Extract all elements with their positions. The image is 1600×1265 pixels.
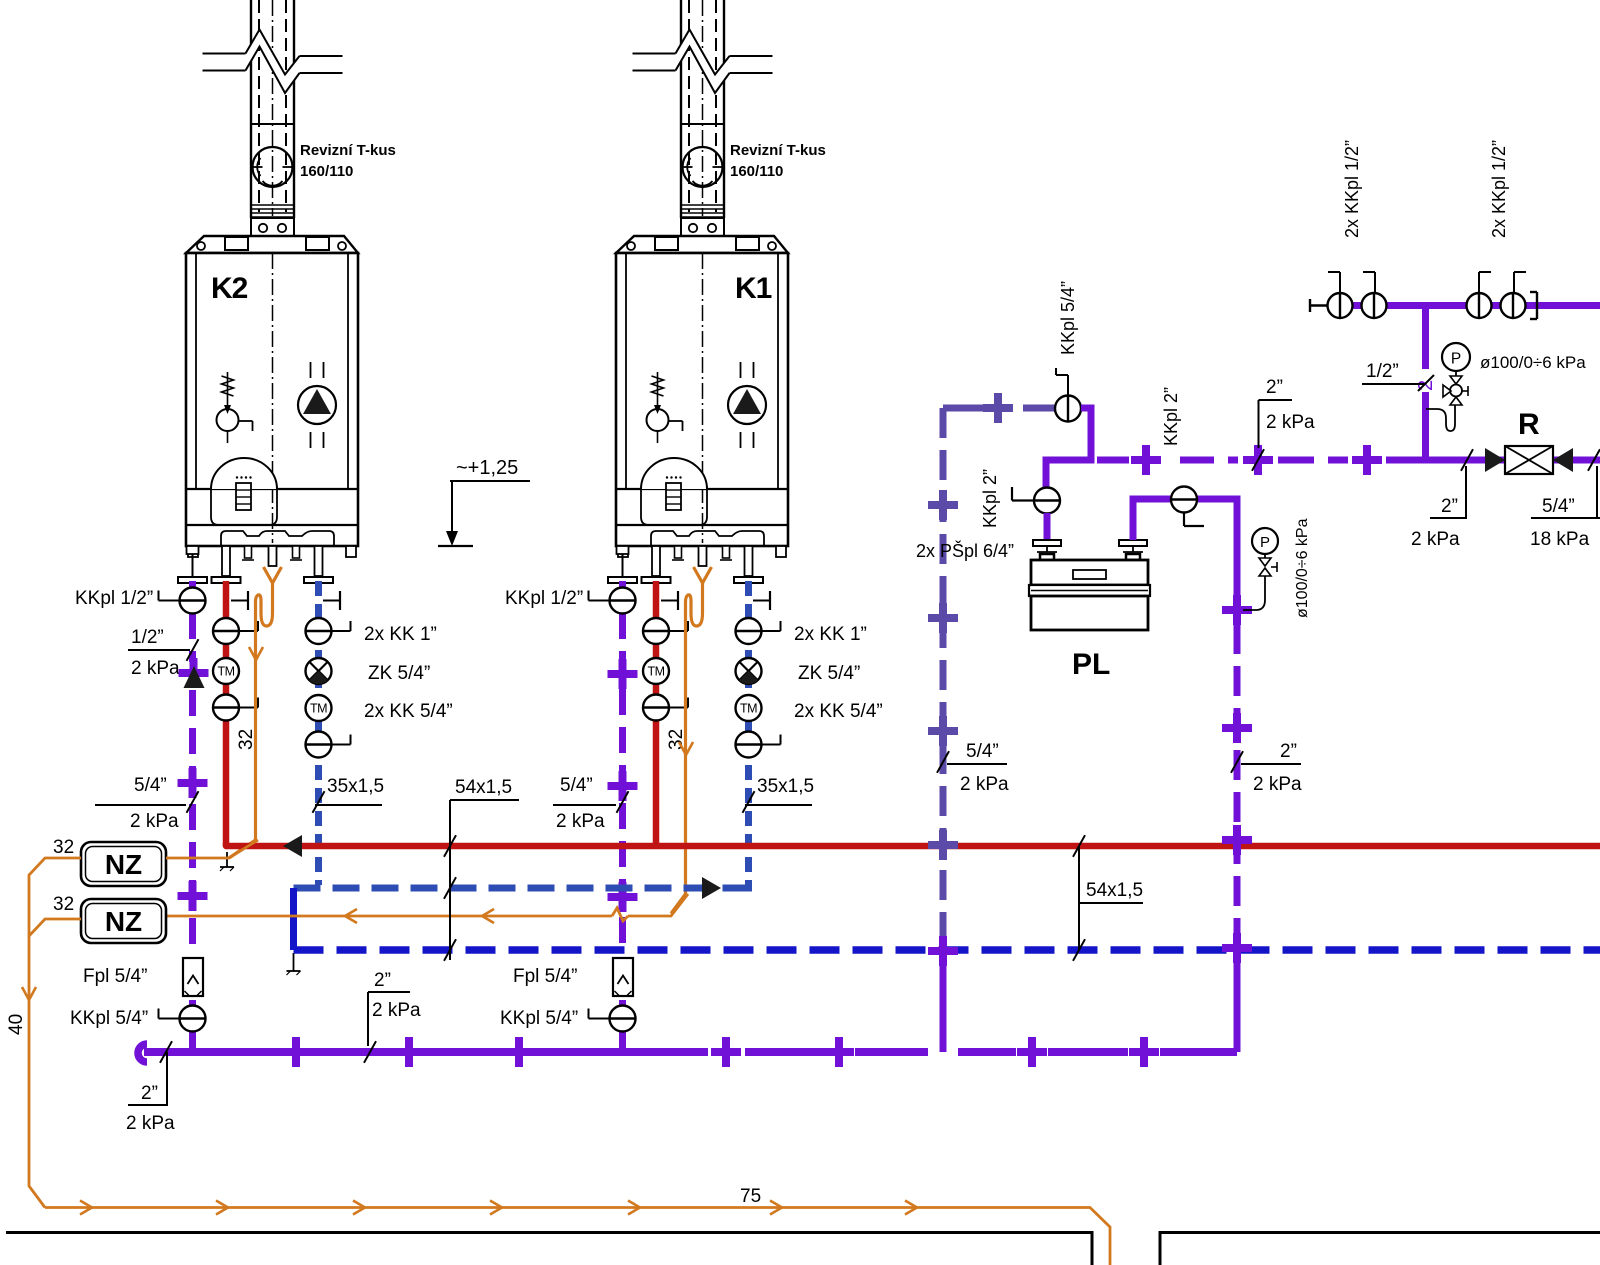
pipe: K1 flow line (red vertical) — [653, 581, 660, 846]
level mark ~+1,25 — [438, 457, 530, 546]
svg-text:5/4”: 5/4” — [966, 741, 999, 762]
svg-text:PL: PL — [1072, 648, 1110, 681]
boiler K2 flue revision tee label — [300, 142, 396, 180]
boiler K2 connection stubs and flanges — [178, 546, 333, 583]
label KKpl 1/2" (K1) — [505, 588, 583, 609]
pipe: K2 flow line (red vertical) — [223, 581, 230, 846]
label 2x KK 1" (K1) — [794, 624, 867, 645]
svg-text:ø100/0÷6 kPa: ø100/0÷6 kPa — [1480, 353, 1586, 372]
pressure gauge P (PL riser) — [1243, 528, 1278, 610]
svg-text:160/110: 160/110 — [300, 163, 353, 180]
valve KKpl 1/2" under K2 — [159, 588, 206, 614]
dimension 54x1,5 (left) — [444, 777, 519, 961]
pipe: K2 safety/fill line (violet dashed vertical) — [189, 581, 196, 1052]
thermometer TM (K2 red) — [213, 658, 239, 684]
svg-text:NZ: NZ — [105, 849, 142, 880]
check valve ZK 5/4" (K2) — [306, 658, 332, 684]
pipe: drop from top line (violet x1425) — [1415, 306, 1437, 461]
label 1/2" with slash (x1425) — [1362, 361, 1434, 391]
svg-text:Revizní T-kus: Revizní T-kus — [730, 142, 826, 159]
pipe: condensate line (orange horizontal) — [166, 894, 688, 923]
pipe: PL right nipple to riser (violet) — [1133, 499, 1237, 582]
pipe: K2 drain hose (orange with loop) — [229, 567, 282, 858]
label KKpl 5/4" (K1 bottom) — [500, 1008, 578, 1029]
wall outline (bottom left room) — [6, 1233, 1092, 1265]
svg-text:32: 32 — [236, 729, 257, 750]
vent stub bracket (K1 red) — [661, 591, 678, 610]
end cap (top line left) — [1310, 299, 1327, 312]
thermometer TM (K2 blue) — [306, 695, 332, 721]
svg-text:Revizní T-kus: Revizní T-kus — [300, 142, 396, 159]
label 35x1,5 (K1) — [743, 776, 815, 813]
svg-text:75: 75 — [740, 1186, 761, 1207]
svg-text:KKpl 1/2”: KKpl 1/2” — [75, 588, 153, 609]
label 2x KK 5/4" (K2) — [364, 701, 453, 722]
size slash 2" 2 kPa (before R) — [1411, 449, 1473, 550]
svg-text:5/4”: 5/4” — [560, 775, 593, 796]
drain tap under red elbow — [220, 852, 234, 871]
plus ticks on riser x1237 — [1222, 595, 1252, 963]
svg-text:54x1,5: 54x1,5 — [455, 777, 512, 798]
check direction triangle (K2 purple line) — [184, 666, 205, 688]
svg-text:5/4”: 5/4” — [134, 775, 167, 796]
svg-text:K1: K1 — [735, 272, 772, 305]
svg-text:2x KKpl 1/2”: 2x KKpl 1/2” — [1489, 140, 1509, 238]
plus tick (K2 purple, below NZ row) — [178, 881, 208, 911]
svg-text:2x PŠpl 6/4”: 2x PŠpl 6/4” — [916, 540, 1014, 561]
svg-text:1/2”: 1/2” — [1366, 361, 1399, 382]
plus tick + size slash 5/4" 2 kPa (K2) — [95, 768, 208, 832]
pipe: PL left nipple (violet) — [1044, 513, 1051, 540]
svg-text:~+1,25: ~+1,25 — [456, 457, 518, 479]
label KKpl 2" (PL left, rotated) — [980, 469, 1000, 528]
drain tap under return elbow — [287, 953, 301, 975]
svg-text:ZK 5/4”: ZK 5/4” — [798, 663, 860, 684]
svg-text:160/110: 160/110 — [730, 163, 783, 180]
valve KKpl 5/4" (K2 bottom) — [159, 1006, 206, 1032]
label diameter/pressure (PL gauge, rotated) — [1294, 518, 1311, 618]
junction box NZ (bottom) — [81, 899, 166, 943]
vent stub bracket (K2 red) — [231, 591, 248, 610]
pipe: expansion connection (muted violet dashed vertical) — [943, 408, 1012, 1052]
svg-text:2 kPa: 2 kPa — [1253, 774, 1302, 795]
plus ticks on bottom violet main — [281, 1037, 1159, 1067]
flange bracket on top line — [1530, 292, 1537, 319]
svg-text:32: 32 — [666, 729, 687, 750]
svg-text:2”: 2” — [374, 970, 391, 991]
label KKpl 1/2" (K2) — [75, 588, 153, 609]
valve (K1 red lower) — [643, 695, 688, 721]
label ZK 5/4" (K2) — [368, 663, 430, 684]
valve (K2 red lower) — [213, 695, 258, 721]
label PL — [1072, 648, 1110, 681]
valve pair 2x KKpl 1/2" (right) — [1467, 272, 1527, 318]
plus ticks on feed main y460 — [1131, 445, 1382, 475]
pipe: return main lower (navy blue dashed) — [294, 946, 1600, 954]
label 32 (NZ top) — [53, 837, 74, 858]
size slash 2" 2 kPa (bottom main left) — [126, 1041, 175, 1134]
svg-text:TM: TM — [217, 665, 234, 679]
gas filter R — [1485, 446, 1573, 474]
svg-text:TM: TM — [740, 702, 757, 716]
svg-text:2 kPa: 2 kPa — [131, 658, 180, 679]
thermometer TM (K1 blue) — [736, 695, 762, 721]
svg-text:2 kPa: 2 kPa — [372, 1000, 421, 1021]
vent stub bracket (K2 blue) — [323, 591, 340, 610]
pipe: K1 return line (blue dashed vertical, elbow to main) — [744, 581, 749, 888]
dimension 54x1,5 (right) — [1073, 835, 1143, 961]
plus ticks on muted vertical — [928, 393, 1013, 966]
size slash 2" 2 kPa (riser x1237) — [1231, 741, 1302, 795]
svg-text:ZK 5/4”: ZK 5/4” — [368, 663, 430, 684]
label KKpl 5/4" (rotated) — [1058, 281, 1078, 355]
svg-text:2 kPa: 2 kPa — [556, 811, 605, 832]
valve 2x KK 5/4" (K2 blue) — [306, 732, 351, 758]
boiler K1 flue (chimney with break symbol and ceiling) — [633, 0, 773, 236]
pipe: K1 drain hose (orange with loop) — [671, 567, 712, 914]
boiler K2 — [186, 236, 358, 557]
label 32 (K2, rotated) — [236, 729, 257, 750]
pipe: gas/water top line (violet y305) — [1329, 302, 1600, 309]
svg-text:32: 32 — [53, 837, 74, 858]
label 2x KK 1" (K2) — [364, 624, 437, 645]
svg-text:KKpl 5/4”: KKpl 5/4” — [500, 1008, 578, 1029]
svg-text:35x1,5: 35x1,5 — [757, 776, 814, 797]
vent stub bracket (K1 blue) — [753, 591, 770, 610]
svg-text:Fpl 5/4”: Fpl 5/4” — [513, 966, 577, 987]
svg-text:18 kPa: 18 kPa — [1530, 529, 1590, 550]
plus tick on K2 purple line — [179, 658, 209, 688]
label 2x KKpl 1/2" (left, rotated) — [1342, 140, 1362, 238]
flow direction arrow (red main) — [283, 835, 302, 857]
svg-text:KKpl 5/4”: KKpl 5/4” — [70, 1008, 148, 1029]
size slash 2" 2 kPa (bottom main mid) — [364, 970, 421, 1063]
size slash 5/4" 2 kPa (muted vertical) — [937, 741, 1009, 795]
label Fpl 5/4" (K2) — [83, 966, 147, 987]
svg-text:54x1,5: 54x1,5 — [1086, 880, 1143, 901]
svg-text:2 kPa: 2 kPa — [960, 774, 1009, 795]
svg-text:2”: 2” — [1441, 496, 1458, 517]
svg-text:5/4”: 5/4” — [1542, 496, 1575, 517]
size slash 2" 2 kPa (feed main) — [1252, 377, 1315, 471]
svg-text:2 kPa: 2 kPa — [130, 811, 179, 832]
label 40 (rotated) — [6, 1014, 27, 1035]
svg-text:2 kPa: 2 kPa — [1266, 412, 1315, 433]
pipe: return main riser at x293 (navy) — [290, 888, 297, 950]
svg-text:ø100/0÷6 kPa: ø100/0÷6 kPa — [1294, 518, 1311, 618]
valve 2x KK 5/4" (K1 blue) — [736, 732, 781, 758]
pipe: K2 return line (blue dashed vertical) — [315, 581, 322, 885]
valve KKpl 2" (PL left) — [1012, 487, 1060, 514]
boiler K1 connection stubs and flanges — [608, 546, 763, 583]
label 1/2" 2 kPa (K2) — [128, 627, 199, 679]
pipe: appliance feed main (violet y460) — [1097, 457, 1600, 464]
label 2x KKpl 1/2" (right, rotated) — [1489, 140, 1509, 238]
svg-text:NZ: NZ — [105, 906, 142, 937]
valve 2x KK 1" (K2 red) — [213, 618, 258, 644]
plus tick on K1 purple line — [608, 659, 638, 689]
svg-text:35x1,5: 35x1,5 — [327, 776, 384, 797]
pipe: orange feed left of NZ boxes — [22, 858, 81, 1208]
svg-text:P: P — [1260, 534, 1270, 551]
boiler K2 flue (chimney with break symbol and ceiling) — [203, 0, 343, 236]
boiler K1 flue revision tee label — [730, 142, 826, 180]
size slash 5/4" 18 kPa (after R) — [1530, 449, 1600, 550]
expansion vessel PL — [1029, 540, 1150, 630]
svg-text:32: 32 — [53, 894, 74, 915]
svg-text:KKpl 2”: KKpl 2” — [980, 469, 1000, 528]
valve KKpl 1/2" under K1 — [589, 588, 636, 614]
flow direction arrow (upper return main) — [702, 877, 721, 899]
pipe: flow main (red horizontal) — [226, 843, 1600, 846]
valve 2x KK 1" (K1 blue) — [736, 618, 781, 644]
svg-text:2”: 2” — [141, 1083, 158, 1104]
svg-text:40: 40 — [6, 1014, 27, 1035]
label 2x KK 5/4" (K1) — [794, 701, 883, 722]
valve KKpl 2" (PL right) — [1171, 487, 1204, 527]
pipe: orange bottom run to shaft — [45, 1201, 1110, 1265]
valve pair 2x KKpl 1/2" (left) — [1328, 272, 1387, 318]
svg-text:1/2”: 1/2” — [131, 627, 164, 648]
label diameter/pressure (regulator gauge) — [1480, 353, 1586, 372]
label 2x PSpl 6/4" — [916, 540, 1014, 561]
pipe: expansion riser (violet dashed x1237) — [1234, 582, 1241, 1052]
check valve ZK 5/4" (K1) — [736, 658, 762, 684]
svg-text:2 kPa: 2 kPa — [1411, 529, 1460, 550]
pipe: expansion branch elbow down (bright violet) — [1046, 408, 1091, 488]
boiler K1 — [616, 236, 788, 557]
label 75 (orange bottom run) — [740, 1186, 761, 1207]
svg-text:2 kPa: 2 kPa — [126, 1113, 175, 1134]
pipe: orange link NZ top to K2 hose — [166, 840, 258, 858]
label R — [1518, 408, 1540, 441]
filter Fpl 5/4" (K2) — [183, 958, 203, 996]
svg-text:K2: K2 — [211, 272, 248, 305]
label ZK 5/4" (K1) — [798, 663, 860, 684]
valve 2x KK 1" (K2 blue) — [306, 618, 351, 644]
valve KKpl 5/4" (K1 bottom) — [589, 1006, 636, 1032]
svg-text:2”: 2” — [1266, 377, 1283, 398]
label KKpl 5/4" (K2 bottom) — [70, 1008, 148, 1029]
svg-text:TM: TM — [647, 665, 664, 679]
plus tick + size slash 5/4" 2 kPa (K1) — [553, 771, 638, 832]
label 32 (NZ bottom) — [53, 894, 74, 915]
svg-text:R: R — [1518, 408, 1540, 441]
svg-text:TM: TM — [310, 702, 327, 716]
junction box NZ (top) — [81, 842, 166, 886]
label Fpl 5/4" (K1) — [513, 966, 577, 987]
svg-text:KKpl 2”: KKpl 2” — [1161, 387, 1181, 446]
pipe: cold-water/fill bottom main (violet dash-dot) — [138, 1044, 1237, 1062]
pipe: return main upper (royal blue dashed) — [294, 885, 745, 892]
svg-text:2x KK 5/4”: 2x KK 5/4” — [364, 701, 453, 722]
svg-text:2x KKpl 1/2”: 2x KKpl 1/2” — [1342, 140, 1362, 238]
valve 2x KK 1" (K1 red) — [643, 618, 688, 644]
svg-text:KKpl 5/4”: KKpl 5/4” — [1058, 281, 1078, 355]
wall outline (bottom right room) — [1160, 1233, 1600, 1265]
valve KKpl 5/4" (expansion branch) — [1023, 368, 1081, 422]
pipe: K1 safety/fill line (violet dashed vertical) — [619, 581, 626, 1052]
label KKpl 2" (PL right, rotated) — [1161, 387, 1181, 446]
svg-text:P: P — [1451, 351, 1461, 368]
svg-text:Fpl 5/4”: Fpl 5/4” — [83, 966, 147, 987]
plus tick (K1 purple, mid) — [608, 882, 638, 912]
pressure gauge P (regulator) — [1426, 343, 1470, 431]
filter Fpl 5/4" (K1) — [613, 958, 633, 996]
svg-text:2”: 2” — [1280, 741, 1297, 762]
svg-text:2x KK 1”: 2x KK 1” — [364, 624, 437, 645]
label 32 (K1, rotated) — [666, 729, 687, 750]
svg-text:2x KK 1”: 2x KK 1” — [794, 624, 867, 645]
svg-text:2x KK 5/4”: 2x KK 5/4” — [794, 701, 883, 722]
svg-text:KKpl 1/2”: KKpl 1/2” — [505, 588, 583, 609]
label 35x1,5 (K2) — [313, 776, 385, 813]
thermometer TM (K1 red) — [643, 658, 669, 684]
